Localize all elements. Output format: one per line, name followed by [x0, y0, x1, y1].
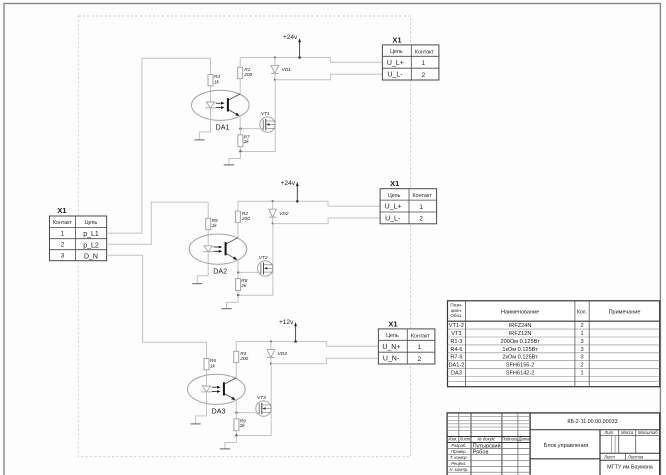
- svg-text:SFH6142-2: SFH6142-2: [506, 371, 535, 377]
- svg-text:1: 1: [580, 371, 583, 377]
- svg-text:IRFZ24N: IRFZ24N: [509, 323, 532, 329]
- svg-text:R4: R4: [214, 74, 220, 80]
- svg-text:Рябов: Рябов: [473, 450, 489, 456]
- svg-text:DA1: DA1: [216, 123, 230, 132]
- svg-text:R7-9: R7-9: [450, 355, 462, 361]
- svg-text:2кОм 0.125Вт: 2кОм 0.125Вт: [502, 355, 538, 361]
- svg-text:Контакт: Контакт: [53, 220, 73, 226]
- svg-text:200: 200: [241, 216, 250, 222]
- svg-text:Контакт: Контакт: [415, 49, 435, 55]
- svg-text:X1: X1: [57, 206, 66, 215]
- svg-text:Кол.: Кол.: [577, 309, 587, 315]
- svg-text:VT1-2: VT1-2: [449, 323, 464, 329]
- svg-text:2k: 2k: [243, 139, 250, 145]
- svg-text:1кОм 0.125Вт: 1кОм 0.125Вт: [502, 347, 538, 353]
- svg-text:Изм.: Изм.: [448, 437, 457, 442]
- svg-text:Контакт: Контакт: [411, 333, 431, 339]
- svg-text:Масса: Масса: [621, 430, 634, 435]
- svg-text:Дата: Дата: [517, 437, 530, 442]
- svg-text:2k: 2k: [239, 423, 246, 429]
- svg-text:2k: 2k: [240, 283, 247, 289]
- svg-text:p_L1: p_L1: [83, 231, 99, 238]
- svg-text:3: 3: [61, 253, 65, 260]
- svg-text:Блок управления: Блок управления: [544, 443, 589, 449]
- svg-text:+12v: +12v: [279, 319, 294, 326]
- svg-text:1: 1: [422, 60, 426, 67]
- svg-text:Листов: Листов: [627, 454, 644, 459]
- svg-text:+24v: +24v: [283, 34, 298, 41]
- svg-text:VT1: VT1: [261, 111, 270, 117]
- svg-text:№ докум.: № докум.: [477, 437, 495, 442]
- svg-text:2: 2: [61, 242, 65, 249]
- svg-text:1k: 1k: [214, 79, 220, 85]
- svg-text:Лист: Лист: [603, 454, 615, 459]
- svg-text:Масштаб: Масштаб: [638, 430, 658, 435]
- svg-text:1: 1: [419, 204, 423, 211]
- svg-text:КБ-2-11.00.00.00033: КБ-2-11.00.00.00033: [567, 419, 617, 425]
- svg-text:R6: R6: [210, 358, 216, 364]
- svg-text:VT3: VT3: [451, 331, 461, 337]
- svg-text:DA1-2: DA1-2: [448, 363, 464, 369]
- svg-text:3: 3: [580, 355, 583, 361]
- svg-text:U_L+: U_L+: [387, 60, 404, 67]
- svg-text:200: 200: [239, 356, 248, 362]
- svg-text:U_L-: U_L-: [387, 72, 403, 79]
- svg-text:Т. контр.: Т. контр.: [450, 455, 468, 460]
- svg-text:VD1: VD1: [282, 67, 292, 73]
- svg-text:Путырский: Путырский: [473, 443, 501, 450]
- svg-text:R1-3: R1-3: [450, 339, 462, 345]
- svg-text:Цепь: Цепь: [388, 193, 401, 199]
- svg-text:X1: X1: [390, 179, 399, 188]
- svg-text:IRFZ12N: IRFZ12N: [509, 331, 532, 337]
- svg-text:DA2: DA2: [213, 266, 227, 275]
- svg-text:Обоз.: Обоз.: [450, 313, 462, 318]
- svg-text:U_N+: U_N+: [382, 344, 400, 351]
- svg-text:VD2: VD2: [279, 211, 289, 217]
- svg-text:+24v: +24v: [281, 180, 296, 187]
- svg-text:Лит.: Лит.: [603, 430, 614, 435]
- svg-text:Цепь: Цепь: [85, 220, 98, 226]
- svg-text:Разраб.: Разраб.: [451, 443, 466, 448]
- svg-text:1: 1: [580, 331, 583, 337]
- svg-text:Лист: Лист: [459, 437, 471, 442]
- svg-text:Контакт: Контакт: [413, 193, 433, 199]
- svg-text:X1: X1: [388, 319, 397, 328]
- svg-text:p_L2: p_L2: [83, 242, 99, 249]
- svg-text:3: 3: [580, 347, 583, 353]
- svg-text:2: 2: [419, 216, 423, 223]
- svg-text:2: 2: [580, 363, 583, 369]
- svg-text:U_N-: U_N-: [383, 356, 400, 363]
- svg-text:X1: X1: [392, 35, 401, 44]
- svg-text:Н. контр.: Н. контр.: [449, 467, 468, 472]
- svg-text:DA3: DA3: [212, 407, 226, 416]
- svg-text:VT2: VT2: [259, 255, 268, 261]
- svg-text:Подпись: Подпись: [502, 437, 519, 442]
- svg-text:1: 1: [61, 231, 65, 238]
- svg-text:Провер.: Провер.: [451, 449, 467, 454]
- svg-text:2: 2: [418, 356, 422, 363]
- svg-text:DA3: DA3: [451, 371, 462, 377]
- svg-text:Примечание: Примечание: [609, 309, 641, 315]
- svg-text:Цепь: Цепь: [390, 49, 403, 55]
- svg-text:МГТУ им Баумана: МГТУ им Баумана: [607, 465, 653, 471]
- svg-text:200: 200: [243, 72, 252, 78]
- svg-text:Наименование: Наименование: [501, 309, 539, 315]
- svg-text:VT3: VT3: [257, 395, 266, 401]
- svg-text:Цепь: Цепь: [386, 333, 399, 339]
- svg-text:200Ом 0.125Вт: 200Ом 0.125Вт: [500, 339, 540, 345]
- svg-text:2: 2: [580, 323, 583, 329]
- svg-text:3: 3: [580, 339, 583, 345]
- svg-text:1: 1: [418, 344, 422, 351]
- svg-text:1k: 1k: [210, 363, 216, 369]
- svg-text:R4-6: R4-6: [450, 347, 462, 353]
- svg-text:1k: 1k: [212, 223, 218, 229]
- svg-text:U_L+: U_L+: [385, 204, 402, 211]
- svg-text:2: 2: [422, 72, 426, 79]
- svg-text:D_N: D_N: [84, 253, 98, 260]
- svg-text:U_L-: U_L-: [385, 216, 401, 223]
- svg-text:SFH6156-2: SFH6156-2: [506, 363, 535, 369]
- svg-text:R5: R5: [212, 218, 218, 224]
- svg-text:Реценз.: Реценз.: [451, 461, 466, 466]
- svg-text:VD3: VD3: [278, 351, 288, 357]
